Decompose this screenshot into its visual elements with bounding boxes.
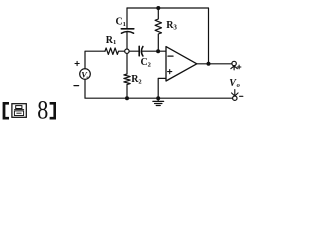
svg-text:8: 8 bbox=[37, 96, 48, 125]
svg-text:1: 1 bbox=[123, 21, 126, 28]
svg-text:3: 3 bbox=[173, 23, 177, 31]
svg-text:2: 2 bbox=[138, 78, 141, 85]
svg-text:2: 2 bbox=[148, 62, 151, 69]
svg-text:1: 1 bbox=[113, 39, 116, 46]
svg-text:s: s bbox=[85, 75, 88, 81]
